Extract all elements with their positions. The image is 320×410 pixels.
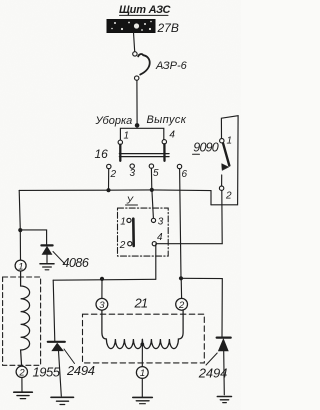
wire node B to diode 4086 <box>20 230 46 244</box>
label 21 <box>134 295 148 310</box>
switch blade left <box>119 145 121 161</box>
wire lower-left horizontal run <box>53 278 156 281</box>
9090 contact 1 <box>220 139 224 143</box>
svg-text:2: 2 <box>178 300 185 311</box>
wire node D to coil 21 pin 2 <box>180 278 182 298</box>
pin label 4 <box>169 130 175 141</box>
solenoid 1955 coil <box>21 271 30 366</box>
svg-text:2: 2 <box>119 240 126 251</box>
relay label У <box>126 196 135 207</box>
wire breaker to switch common node <box>136 80 138 124</box>
wire left branch down <box>19 190 20 230</box>
switch blade right <box>163 144 165 161</box>
svg-text:2: 2 <box>225 191 232 202</box>
switch contact 4 <box>162 140 166 144</box>
solenoid 21 winding <box>102 310 183 348</box>
diode 2494 right <box>217 338 231 395</box>
svg-text:1: 1 <box>120 217 126 228</box>
svg-text:1: 1 <box>124 131 130 142</box>
label 2494 left <box>66 363 95 378</box>
wire center tap to terminal 1 <box>141 339 143 366</box>
switch bridging bar <box>119 154 169 157</box>
wire terminal 1 to ground <box>141 379 143 398</box>
wire main horizontal run <box>19 189 211 192</box>
svg-text:6: 6 <box>182 169 188 180</box>
wire node C to relay pin 3 <box>152 190 154 218</box>
label 27В <box>157 21 179 35</box>
relay pin 3 <box>151 218 155 222</box>
ground for 1955 <box>14 392 33 398</box>
svg-text:Щит АЗС: Щит АЗС <box>119 4 172 16</box>
svg-text:2494: 2494 <box>66 363 95 378</box>
relay У enclosure <box>118 208 169 256</box>
svg-text:4: 4 <box>169 130 175 141</box>
wire terminal 5 down <box>150 168 152 190</box>
label 4086 <box>63 256 89 270</box>
pin label 1 <box>124 131 130 142</box>
node B junction <box>18 228 22 232</box>
svg-text:1: 1 <box>227 136 233 147</box>
svg-text:21: 21 <box>134 295 148 310</box>
node center tap <box>140 343 144 347</box>
leader line 4086 <box>53 252 65 264</box>
wire step from main run to 9090 bottom <box>210 191 212 205</box>
switch contact 1 <box>118 140 122 144</box>
wire left end down to diode 2494 <box>53 280 55 341</box>
label 1955 <box>33 364 61 379</box>
relay contact bar <box>132 219 135 246</box>
wire relay pin 4 to 9090 <box>157 243 223 245</box>
relay pin 2 <box>128 242 132 246</box>
svg-text:5: 5 <box>153 168 159 179</box>
switch 9090 housing <box>211 116 238 205</box>
wire node B to 1955 terminal 1 <box>19 230 21 260</box>
wire terminal 2 down <box>108 169 110 191</box>
wire node F to coil 21 pin 3 <box>101 279 103 299</box>
ground for 4086 <box>40 264 54 270</box>
solenoid 21 terminal 2 <box>176 298 188 311</box>
wire node D to right diode branch <box>181 278 222 337</box>
svg-text:4086: 4086 <box>63 256 89 270</box>
ground for solenoid 21 <box>133 397 153 403</box>
solenoid 21 terminal 1 <box>136 367 148 380</box>
svg-text:2: 2 <box>18 368 25 379</box>
svg-text:1955: 1955 <box>33 364 61 379</box>
9090 blade arrowhead <box>222 164 229 171</box>
wire terminal 6 down <box>180 169 181 279</box>
label АЗР-6 <box>155 60 188 72</box>
leader line 2494 right <box>206 353 217 365</box>
wire 9090 contact 2 down to relay wire <box>221 191 223 244</box>
svg-text:9090: 9090 <box>193 140 218 154</box>
label 9090 <box>193 140 218 154</box>
svg-text:2494: 2494 <box>198 366 228 381</box>
label 16 <box>95 147 109 161</box>
label 2494 right <box>198 366 228 381</box>
busbar Щит АЗС (27V bus) <box>107 20 155 33</box>
svg-text:3: 3 <box>158 217 164 228</box>
label Уборка <box>95 115 133 127</box>
svg-text:1: 1 <box>140 368 145 379</box>
svg-text:Уборка: Уборка <box>95 115 133 127</box>
switch terminal 5 <box>149 164 153 168</box>
svg-text:16: 16 <box>95 147 109 161</box>
switch terminal 6 <box>177 164 181 168</box>
node D junction <box>179 276 183 280</box>
ground for 2494 right <box>217 397 231 403</box>
svg-text:27В: 27В <box>157 21 179 35</box>
solenoid 1955 terminal 1 <box>15 260 26 272</box>
node A junction <box>106 188 110 192</box>
switch terminal 2 <box>107 164 111 168</box>
solenoid 1955 enclosure <box>3 277 41 365</box>
svg-text:4: 4 <box>157 232 163 243</box>
9090 blade <box>223 143 229 165</box>
svg-text:3: 3 <box>99 300 105 311</box>
solenoid 21 enclosure <box>83 314 205 363</box>
9090 contact 2 stub <box>221 175 223 186</box>
switch top bracket wire to contacts 1 and 4 <box>120 128 163 140</box>
diode 4086 <box>41 245 52 262</box>
switch terminal 3 <box>130 164 134 168</box>
svg-text:3: 3 <box>130 168 136 179</box>
busbar label Щит АЗС <box>119 4 172 16</box>
label Выпуск <box>147 114 187 126</box>
leader line 2494 left <box>64 349 75 364</box>
solenoid 1955 terminal 2 <box>16 366 27 378</box>
svg-text:Выпуск: Выпуск <box>147 114 187 126</box>
solenoid 21 terminal 3 <box>96 298 108 311</box>
node F junction <box>100 277 104 281</box>
relay pin 4 <box>152 242 156 246</box>
wire 1955 terminal 2 to ground <box>21 378 23 392</box>
relay pin 1 <box>127 218 131 222</box>
circuit breaker АЗР-6 <box>133 52 150 81</box>
node C junction <box>150 188 154 192</box>
wire busbar to breaker <box>134 33 135 52</box>
wire relay pin 4 branch down <box>155 244 157 279</box>
ground for 2494 left <box>51 397 74 404</box>
9090 contact 2 <box>219 186 223 190</box>
svg-text:2: 2 <box>110 169 117 180</box>
diode 2494 left <box>48 342 65 396</box>
node: switch common junction <box>135 123 140 128</box>
svg-text:АЗР-6: АЗР-6 <box>155 60 188 72</box>
